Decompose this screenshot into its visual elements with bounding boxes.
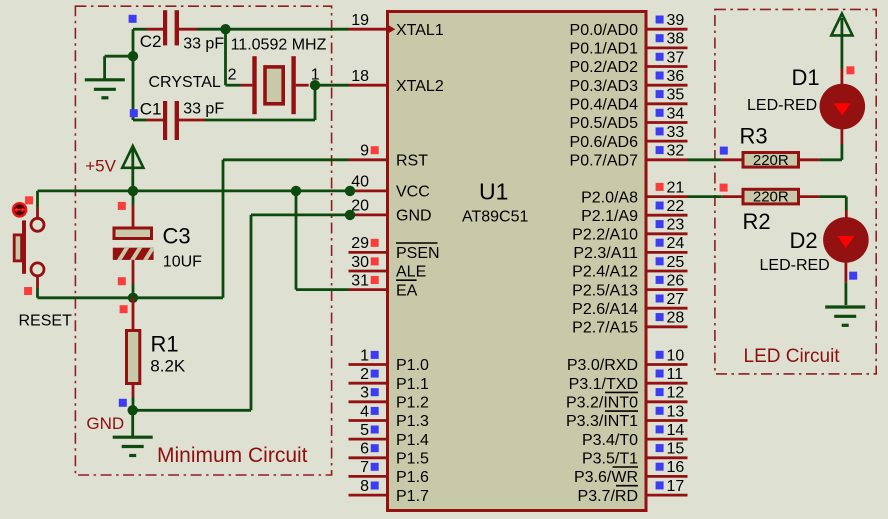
svg-text:36: 36 — [667, 68, 685, 85]
overline RD — [616, 485, 638, 487]
node junction to ground tap — [128, 51, 138, 61]
svg-text:8.2K: 8.2K — [150, 357, 186, 376]
svg-text:P2.3/A11: P2.3/A11 — [573, 245, 638, 262]
svg-text:38: 38 — [667, 31, 685, 48]
svg-text:6: 6 — [360, 441, 369, 458]
svg-text:P2.0/A8: P2.0/A8 — [581, 189, 638, 206]
wire pin 32 to R3 — [688, 158, 722, 161]
svg-text:8: 8 — [360, 478, 369, 495]
svg-text:P3.2/INT0: P3.2/INT0 — [566, 395, 638, 412]
resistor R3 220R — [722, 158, 743, 161]
svg-text:34: 34 — [667, 105, 685, 122]
pin 28 stub (right) — [647, 325, 688, 328]
svg-text:220R: 220R — [753, 189, 789, 206]
ground symbol (minimum circuit) — [131, 410, 134, 436]
svg-text:R2: R2 — [743, 209, 771, 234]
wire R3 to D1 — [819, 158, 842, 161]
ground symbol (LED circuit) — [825, 305, 865, 308]
svg-text:P2.5/A13: P2.5/A13 — [572, 282, 638, 299]
pin 13 stub (right) — [647, 419, 688, 422]
pin 29 stub (left) — [349, 251, 387, 254]
pin 26 stub (right) — [647, 288, 688, 291]
wire RESET bottom rail y=298 — [38, 296, 224, 299]
wire C2 left to vertical rail — [133, 28, 146, 31]
svg-text:32: 32 — [667, 143, 685, 160]
svg-text:D1: D1 — [792, 65, 820, 90]
pin 30 stub (left) — [349, 270, 387, 273]
wire C1 left lead corner — [133, 119, 146, 122]
LED D1 (LED-RED) — [820, 84, 866, 130]
svg-text:16: 16 — [667, 459, 685, 476]
pin 3 stub (left) — [349, 400, 387, 403]
svg-text:21: 21 — [667, 179, 685, 196]
svg-text:35: 35 — [667, 87, 685, 104]
overline INT1 — [605, 410, 638, 412]
svg-text:27: 27 — [667, 291, 685, 308]
pin 16 stub (right) — [647, 475, 688, 478]
capacitor C3 10UF (electrolytic) — [132, 191, 135, 205]
pin 34 stub (right) — [647, 121, 688, 124]
pin 27 stub (right) — [647, 307, 688, 310]
svg-text:LED-RED: LED-RED — [747, 97, 817, 114]
svg-text:XTAL1: XTAL1 — [396, 22, 444, 39]
svg-text:P1.4: P1.4 — [396, 432, 429, 449]
node marker red square button top — [25, 196, 33, 204]
svg-text:RESET: RESET — [19, 313, 73, 330]
pin 5 stub (left) — [349, 438, 387, 441]
push button body — [14, 235, 21, 261]
pin 7 stub (left) — [349, 475, 387, 478]
svg-text:P2.2/A10: P2.2/A10 — [572, 227, 638, 244]
node VCC pin junction — [345, 186, 355, 196]
power arrow (D1 anode to +V) — [841, 18, 844, 69]
pin 35 stub (right) — [647, 102, 688, 105]
svg-text:LED-RED: LED-RED — [760, 257, 830, 274]
pin 32 stub (right) — [647, 158, 688, 161]
pin 22 stub (right) — [647, 214, 688, 217]
overline INT0 — [605, 391, 638, 393]
node C3/R1 junction — [128, 293, 138, 303]
svg-text:33: 33 — [667, 124, 685, 141]
svg-text:18: 18 — [351, 68, 369, 85]
svg-text:LED Circuit: LED Circuit — [744, 346, 841, 367]
push button plunger bar — [22, 220, 26, 273]
svg-text:10: 10 — [667, 347, 685, 364]
resistor R1 8.2K — [132, 298, 135, 329]
node marker blue square R3 left — [720, 147, 728, 155]
wire ground tap — [105, 55, 133, 58]
svg-text:37: 37 — [667, 49, 685, 66]
pin 20 stub (left) — [350, 213, 386, 216]
wire GND pin branch: y=410 horizontal, x=251 vertical, y=215 horizontal — [133, 409, 251, 412]
pin 8 stub (left) — [349, 494, 387, 497]
wire junction down to C1 bottom wire — [314, 85, 317, 120]
svg-text:19: 19 — [351, 12, 369, 29]
node R1/GND junction — [128, 405, 138, 415]
pin 39 stub (right) — [647, 28, 688, 31]
crystal X1 11.0592 MHZ — [241, 84, 253, 87]
svg-text:30: 30 — [351, 254, 369, 271]
svg-text:P1.7: P1.7 — [396, 488, 429, 505]
svg-text:11.0592 MHZ: 11.0592 MHZ — [231, 37, 327, 54]
svg-text:29: 29 — [351, 235, 369, 252]
node marker red square C3 bottom — [118, 277, 126, 285]
svg-text:P3.6/WR: P3.6/WR — [574, 469, 638, 486]
pin 4 stub (left) — [349, 419, 387, 422]
svg-text:P1.2: P1.2 — [396, 395, 429, 412]
IC U1 AT89C51 microcontroller body — [388, 12, 647, 511]
pin name XTAL1 with clock arrow — [388, 25, 395, 34]
svg-text:10UF: 10UF — [163, 253, 202, 270]
node marker red square R2 left — [720, 184, 728, 192]
LED D2 top lead — [845, 210, 848, 218]
svg-text:P3.7/RD: P3.7/RD — [578, 488, 638, 505]
svg-text:33 pF: 33 pF — [183, 35, 224, 52]
node marker blue square R1 bottom — [119, 399, 127, 407]
pin 14 stub (right) — [647, 438, 688, 441]
svg-text:P2.1/A9: P2.1/A9 — [581, 208, 638, 225]
svg-text:13: 13 — [667, 403, 685, 420]
wire RST: vertical x=223 and horizontal to pin 9 — [222, 160, 225, 298]
svg-text:XTAL2: XTAL2 — [396, 78, 444, 95]
wire crystal right to pin 18 XTAL2 — [310, 84, 349, 87]
wire pin 21 to R2 — [688, 195, 722, 198]
pin 12 stub (right) — [647, 400, 688, 403]
svg-text:EA: EA — [396, 282, 418, 299]
ground symbol (crystal subcircuit) — [85, 78, 125, 81]
svg-text:+5V: +5V — [85, 157, 116, 176]
svg-text:C2: C2 — [140, 32, 162, 51]
svg-text:P0.1/AD1: P0.1/AD1 — [570, 41, 639, 58]
LED D1 top lead — [841, 69, 844, 85]
Minimum Circuit dashed boundary box — [75, 6, 331, 475]
node marker red square D1 top — [846, 66, 854, 74]
svg-text:C3: C3 — [163, 224, 191, 249]
pin 6 stub (left) — [349, 456, 387, 459]
svg-text:15: 15 — [667, 441, 685, 458]
svg-text:2: 2 — [360, 366, 369, 383]
pin 10 stub (right) — [647, 363, 688, 366]
pin 11 stub (right) — [647, 382, 688, 385]
svg-text:P0.4/AD4: P0.4/AD4 — [570, 97, 639, 114]
svg-text:9: 9 — [360, 143, 369, 160]
pin 37 stub (right) — [647, 65, 688, 68]
svg-text:P3.5/T1: P3.5/T1 — [582, 451, 638, 468]
pin 24 stub (right) — [647, 251, 688, 254]
svg-text:220R: 220R — [753, 152, 789, 169]
svg-text:P0.3/AD3: P0.3/AD3 — [570, 78, 639, 95]
pin 9 stub (left) — [349, 158, 387, 161]
svg-text:PSEN: PSEN — [396, 245, 440, 262]
push button bottom lead — [36, 276, 39, 289]
LED D1 bottom lead — [841, 128, 844, 144]
node crystal/XTAL2 junction — [310, 80, 320, 90]
svg-text:VCC: VCC — [396, 184, 430, 201]
svg-text:RST: RST — [396, 153, 428, 170]
wire XTAL1 net: C2 right plate to junction to pin 19 — [179, 28, 197, 31]
svg-text:P2.4/A12: P2.4/A12 — [572, 264, 638, 281]
svg-text:P0.7/AD7: P0.7/AD7 — [570, 153, 639, 170]
svg-text:U1: U1 — [479, 179, 508, 205]
svg-text:P1.3: P1.3 — [396, 413, 429, 430]
pin 15 stub (right) — [647, 456, 688, 459]
LED Circuit dashed boundary box — [715, 9, 876, 374]
node marker blue square C1 corner — [130, 109, 138, 117]
svg-text:AT89C51: AT89C51 — [462, 209, 529, 226]
svg-text:17: 17 — [667, 478, 685, 495]
svg-text:5: 5 — [360, 422, 369, 439]
node +5V/C3 junction — [128, 186, 138, 196]
wire EA branch: x=296 vertical down, y=290 to pin 31 — [295, 191, 298, 290]
capacitor C1 — [146, 119, 163, 122]
svg-text:1: 1 — [360, 347, 369, 364]
svg-text:Minimum Circuit: Minimum Circuit — [157, 444, 308, 467]
node marker red square C3 top — [118, 202, 126, 210]
pin 31 stub (left) — [349, 288, 387, 291]
svg-text:P2.7/A15: P2.7/A15 — [572, 320, 638, 337]
node XTAL1 junction — [220, 24, 230, 34]
wire C1 right to crystal bottom — [179, 119, 205, 122]
node GND pin junction — [345, 210, 355, 220]
wire junction down to crystal pin 2 — [224, 29, 227, 85]
node marker red square R1 top — [120, 305, 128, 313]
svg-text:P0.6/AD6: P0.6/AD6 — [570, 134, 639, 151]
node marker blue square D2 bottom — [849, 272, 857, 280]
power +5V symbol (arrow) — [122, 146, 143, 168]
svg-text:24: 24 — [667, 235, 685, 252]
node marker red square button bottom — [24, 287, 32, 295]
svg-text:4: 4 — [360, 403, 369, 420]
svg-text:R3: R3 — [740, 123, 768, 148]
pin 25 stub (right) — [647, 270, 688, 273]
svg-text:GND: GND — [86, 414, 124, 433]
LED D2 bottom lead — [845, 262, 848, 282]
svg-text:P0.0/AD0: P0.0/AD0 — [570, 22, 639, 39]
pin 23 stub (right) — [647, 232, 688, 235]
svg-text:D2: D2 — [790, 228, 818, 253]
capacitor C2 — [146, 28, 163, 31]
svg-text:ALE: ALE — [396, 264, 426, 281]
node EA branch junction — [291, 186, 301, 196]
pin 38 stub (right) — [647, 47, 688, 50]
svg-text:14: 14 — [667, 422, 685, 439]
pin 36 stub (right) — [647, 84, 688, 87]
pin 33 stub (right) — [647, 140, 688, 143]
pin 40 stub (left) — [350, 189, 386, 192]
svg-text:GND: GND — [396, 208, 432, 225]
svg-text:22: 22 — [667, 198, 685, 215]
svg-text:25: 25 — [667, 254, 685, 271]
svg-text:12: 12 — [667, 385, 685, 402]
wire C3 bottom lead — [132, 260, 135, 284]
svg-text:C1: C1 — [140, 99, 162, 118]
svg-text:33 pF: 33 pF — [183, 101, 224, 118]
overline WR — [613, 466, 639, 468]
resistor R2 220R — [722, 195, 743, 198]
pin 2 stub (left) — [349, 382, 387, 385]
wire D2 to ground — [845, 282, 848, 305]
svg-text:P1.6: P1.6 — [396, 469, 429, 486]
wire R2 to D2 — [819, 195, 846, 198]
node marker blue square C2 corner — [129, 15, 137, 23]
svg-text:31: 31 — [351, 272, 369, 289]
svg-text:P3.0/RXD: P3.0/RXD — [567, 357, 638, 374]
push button interactive actuator (red circle with arrows) — [13, 203, 26, 216]
svg-text:26: 26 — [667, 272, 685, 289]
svg-text:3: 3 — [360, 385, 369, 402]
push button top contact circle — [31, 218, 44, 231]
svg-text:P3.4/T0: P3.4/T0 — [582, 432, 638, 449]
push button bottom contact circle — [31, 263, 44, 276]
svg-text:39: 39 — [667, 12, 685, 29]
svg-text:P1.0: P1.0 — [396, 357, 429, 374]
svg-text:CRYSTAL: CRYSTAL — [149, 74, 221, 91]
LED D2 (LED-RED) — [823, 217, 869, 263]
pin 17 stub (right) — [647, 494, 688, 497]
pin 18 stub (left) — [349, 84, 387, 87]
svg-text:23: 23 — [667, 217, 685, 234]
svg-text:P1.5: P1.5 — [396, 451, 429, 468]
svg-text:R1: R1 — [151, 332, 179, 357]
svg-text:P3.1/TXD: P3.1/TXD — [569, 376, 638, 393]
svg-text:2: 2 — [228, 67, 237, 84]
svg-text:28: 28 — [667, 310, 685, 327]
svg-text:11: 11 — [667, 366, 684, 383]
svg-text:P2.6/A14: P2.6/A14 — [572, 301, 638, 318]
svg-text:P3.3/INT1: P3.3/INT1 — [566, 413, 638, 430]
push button (RESET switch) top lead — [36, 191, 39, 207]
svg-text:P0.5/AD5: P0.5/AD5 — [570, 115, 639, 132]
wire vertical rail x=133 (C2 to C1) — [132, 29, 135, 120]
svg-text:7: 7 — [360, 459, 369, 476]
svg-text:P0.2/AD2: P0.2/AD2 — [570, 59, 639, 76]
pin 19 stub (left) — [349, 28, 387, 31]
pin 21 stub (right) — [647, 195, 688, 198]
svg-text:P1.1: P1.1 — [396, 376, 429, 393]
pin 1 stub (left) — [349, 363, 387, 366]
wire +5V rail y=191 — [38, 189, 351, 192]
